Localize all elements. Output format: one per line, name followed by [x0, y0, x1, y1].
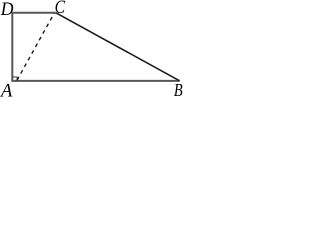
- svg-text:D: D: [0, 0, 14, 19]
- svg-text:C: C: [55, 0, 66, 17]
- svg-text:B: B: [174, 79, 183, 97]
- svg-text:A: A: [0, 81, 13, 97]
